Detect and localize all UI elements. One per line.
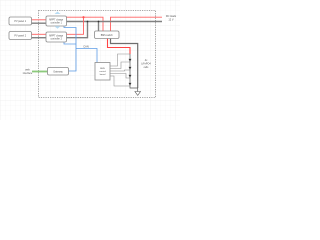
ground	[135, 92, 141, 96]
svg-text:BMS switch: BMS switch	[101, 34, 114, 37]
balance lead 1	[110, 54, 130, 66]
label CAN	[83, 45, 89, 49]
svg-text:12 V: 12 V	[168, 19, 173, 22]
label 4x LiFePO4 cells	[141, 59, 151, 69]
junction dot gray bus drop	[98, 21, 100, 23]
BMS switch	[95, 31, 120, 39]
MPPT charge controller 2	[46, 32, 67, 42]
balance lead 5	[110, 76, 130, 86]
svg-text:PV panel 1: PV panel 1	[14, 20, 26, 23]
svg-text:PV panel 2: PV panel 2	[14, 35, 26, 38]
balance lead 4	[110, 74, 130, 79]
wire MPPT1 CAN (blue)	[64, 26, 76, 71]
svg-text:controller 1: controller 1	[51, 22, 63, 25]
svg-text:BMS: BMS	[100, 68, 105, 70]
battery cell 2 arrow	[129, 67, 132, 70]
PV panel 2	[9, 32, 32, 40]
BMS control board	[95, 63, 110, 81]
svg-text:control: control	[99, 70, 106, 73]
battery cell 4 arrow	[129, 83, 132, 86]
wire PV2 negative (gray)	[32, 37, 47, 39]
Gateway	[48, 68, 69, 76]
wire BMS switch to battery negative return (gray)	[111, 39, 138, 89]
wire PV2 positive (red)	[32, 33, 47, 35]
expand arrow above MPPT1	[55, 12, 61, 15]
label web interface	[23, 69, 33, 75]
svg-text:interface: interface	[23, 72, 33, 75]
balance lead 3	[110, 70, 130, 71]
label DC loads 12V	[166, 15, 177, 22]
wire MPPT2 negative to bus (gray)	[67, 22, 88, 38]
svg-text:board: board	[100, 73, 106, 76]
battery cell 3 arrow	[129, 75, 132, 78]
wire DC negative bus (gray)	[67, 21, 163, 23]
wire PV1 negative (gray)	[32, 22, 47, 24]
wire MPPT2 positive to bus (red)	[67, 17, 84, 34]
svg-text:controller 2: controller 2	[51, 38, 63, 41]
expand arrow below MPPT1	[55, 26, 61, 29]
wire ethernet to gateway (green)	[32, 71, 48, 73]
wire MPPT2 CAN (blue)	[64, 42, 76, 44]
wire DC positive bus left segment (red)	[67, 17, 104, 31]
svg-text:MPPT charge: MPPT charge	[49, 19, 64, 22]
battery cell stack wire	[130, 54, 138, 92]
svg-text:cells: cells	[144, 66, 150, 69]
battery cell 1 arrow	[129, 59, 132, 62]
wire negative bus drop to BMS switch (gray)	[98, 22, 100, 32]
svg-text:MPPT charge: MPPT charge	[49, 35, 64, 38]
wire BMS switch to battery positive (red)	[108, 39, 131, 55]
PV panel 1	[9, 17, 32, 25]
junction dot red bus	[82, 16, 84, 18]
svg-text:CAN: CAN	[83, 45, 89, 49]
dashed system boundary	[39, 11, 156, 98]
wire CAN bus to BMS board (blue)	[76, 49, 97, 63]
wire PV1 positive (red)	[32, 19, 47, 21]
MPPT charge controller 1	[46, 16, 67, 26]
junction dot gray bus MPPT2	[87, 21, 89, 23]
balance lead 2	[110, 62, 130, 69]
wire DC positive bus right segment (red)	[111, 17, 163, 31]
svg-text:Gateway: Gateway	[53, 70, 63, 73]
